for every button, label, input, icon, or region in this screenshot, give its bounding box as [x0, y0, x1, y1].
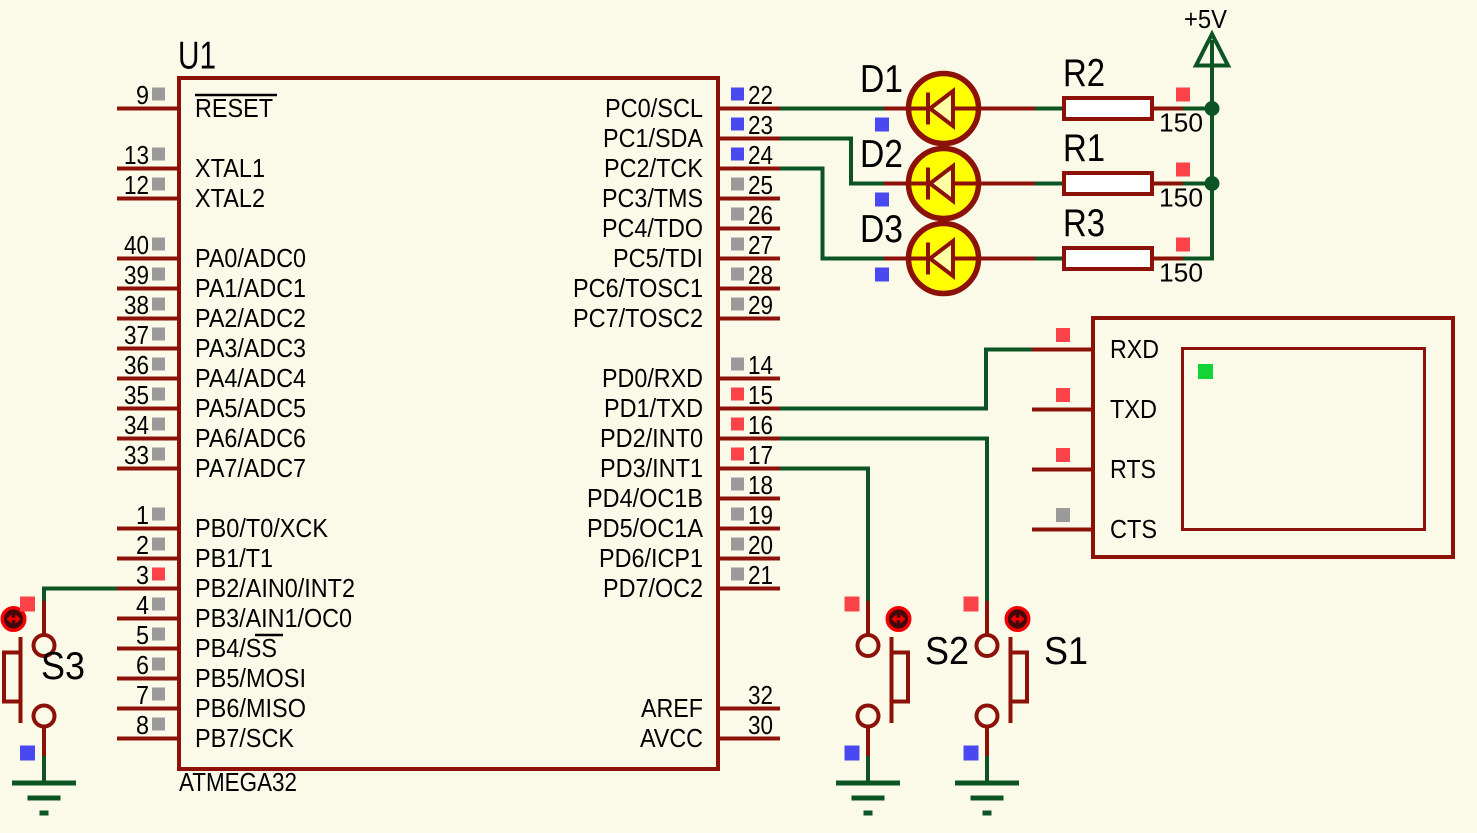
- svg-text:PB0/T0/XCK: PB0/T0/XCK: [195, 513, 329, 543]
- svg-text:20: 20: [748, 530, 773, 560]
- U1 right pin 21 PD7/OC2: stub, number, state square, name: [718, 587, 780, 591]
- svg-text:PD6/ICP1: PD6/ICP1: [599, 543, 703, 573]
- svg-text:150: 150: [1159, 258, 1203, 288]
- U1 right pin 30 AVCC: stub, number, state square, name: [718, 737, 780, 741]
- U1 left pin 1 PB0/T0/XCK: stub, number, state square, name: [117, 527, 179, 531]
- svg-text:30: 30: [748, 710, 773, 740]
- svg-text:23: 23: [748, 110, 773, 140]
- resistor R3: leads, body: [1033, 257, 1062, 261]
- button S2 bottom terminal circle: [858, 706, 879, 727]
- svg-text:24: 24: [748, 140, 773, 170]
- svg-text:150: 150: [1159, 108, 1203, 138]
- U1 left pin 6 PB5/MOSI: stub, number, state square, name: [117, 677, 179, 681]
- terminal pin RTS: stub, state square, name: [1032, 468, 1093, 472]
- svg-text:PC5/TDI: PC5/TDI: [613, 243, 703, 273]
- U1 right pin 19 PD5/OC1A: stub, number, state square, name: [718, 527, 780, 531]
- svg-text:RTS: RTS: [1110, 454, 1156, 484]
- svg-text:2: 2: [136, 530, 149, 560]
- wire pin16 PD2/INT0 down to button S1: [780, 439, 987, 604]
- button S3 bottom lead: [42, 726, 46, 759]
- svg-text:PD7/OC2: PD7/OC2: [603, 573, 703, 603]
- svg-text:PB7/SCK: PB7/SCK: [195, 723, 295, 753]
- svg-text:RESET: RESET: [195, 93, 273, 123]
- svg-text:37: 37: [124, 320, 149, 350]
- svg-text:R1: R1: [1063, 127, 1105, 170]
- wire pin3 PB2 to button S3: [44, 589, 117, 604]
- terminal pin CTS: stub, state square, name: [1032, 528, 1093, 532]
- svg-text:PC3/TMS: PC3/TMS: [602, 183, 703, 213]
- button S2 bottom state square (blue): [845, 746, 860, 761]
- svg-text:15: 15: [748, 380, 773, 410]
- svg-text:PA2/ADC2: PA2/ADC2: [195, 303, 306, 333]
- svg-text:1: 1: [136, 500, 149, 530]
- svg-text:PC7/TOSC2: PC7/TOSC2: [573, 303, 703, 333]
- svg-text:PB1/T1: PB1/T1: [195, 543, 273, 573]
- svg-text:21: 21: [748, 560, 773, 590]
- svg-text:PD0/RXD: PD0/RXD: [602, 363, 703, 393]
- svg-text:36: 36: [124, 350, 149, 380]
- IC U1 ATMEGA32 body: [179, 78, 718, 769]
- svg-text:5: 5: [136, 620, 149, 650]
- +5V power rail vertical wire: [1210, 40, 1214, 259]
- svg-text:PC4/TDO: PC4/TDO: [602, 213, 703, 243]
- svg-text:PA7/ADC7: PA7/ADC7: [195, 453, 306, 483]
- ground lead below S1: [985, 756, 989, 783]
- svg-text:PD1/TXD: PD1/TXD: [604, 393, 703, 423]
- svg-text:32: 32: [748, 680, 773, 710]
- button S1 interactive actuator (red circle with arrow): [1006, 608, 1029, 631]
- svg-text:D1: D1: [860, 58, 903, 101]
- svg-text:13: 13: [124, 140, 149, 170]
- svg-text:6: 6: [136, 650, 149, 680]
- wire pin23 to D2 (jog): [780, 139, 886, 184]
- svg-text:R3: R3: [1063, 202, 1105, 245]
- svg-text:PB6/MISO: PB6/MISO: [195, 693, 306, 723]
- button S3 bottom state square (blue): [20, 746, 35, 761]
- svg-text:CTS: CTS: [1110, 514, 1157, 544]
- button S3 interactive actuator (red circle with arrow): [2, 608, 25, 631]
- svg-text:28: 28: [748, 260, 773, 290]
- svg-text:AREF: AREF: [641, 693, 703, 723]
- ground symbol below S2: [836, 781, 900, 786]
- U1 left pin 40 PA0/ADC0: stub, number, state square, name: [117, 257, 179, 261]
- U1 left pin 7 PB6/MISO: stub, number, state square, name: [117, 707, 179, 711]
- svg-text:38: 38: [124, 290, 149, 320]
- button S1 bottom lead: [985, 726, 989, 759]
- svg-text:8: 8: [136, 710, 149, 740]
- U1 left pin 36 PA4/ADC4: stub, number, state square, name: [117, 377, 179, 381]
- U1 left pin 39 PA1/ADC1: stub, number, state square, name: [117, 287, 179, 291]
- U1 right pin 20 PD6/ICP1: stub, number, state square, name: [718, 557, 780, 561]
- wire pin22 to D1: [780, 107, 886, 111]
- svg-text:AVCC: AVCC: [640, 723, 703, 753]
- svg-text:+5V: +5V: [1184, 4, 1228, 34]
- svg-text:18: 18: [748, 470, 773, 500]
- U1 left pin 38 PA2/ADC2: stub, number, state square, name: [117, 317, 179, 321]
- svg-text:39: 39: [124, 260, 149, 290]
- U1 left pin 5 PB4/SS: stub, number, state square, name: [117, 647, 179, 651]
- button S3 top terminal circle: [34, 635, 55, 656]
- svg-text:XTAL2: XTAL2: [195, 183, 265, 213]
- U1 right pin 24 PC2/TCK: stub, number, state square, name: [718, 167, 780, 171]
- svg-text:25: 25: [748, 170, 773, 200]
- LED D1 input state square (blue): [875, 118, 889, 132]
- U1 left pin 3 PB2/AIN0/INT2: stub, number, state square, name: [117, 587, 179, 591]
- button S2 top state square (red): [845, 597, 860, 612]
- svg-text:34: 34: [124, 410, 149, 440]
- button S1 top lead: [985, 601, 989, 634]
- U1 left pin 8 PB7/SCK: stub, number, state square, name: [117, 737, 179, 741]
- U1 right pin 15 PD1/TXD: stub, number, state square, name: [718, 407, 780, 411]
- button S1 actuator plate: [1009, 637, 1013, 723]
- terminal cursor square (green): [1198, 364, 1213, 379]
- svg-text:19: 19: [748, 500, 773, 530]
- LED D3 input state square (blue): [875, 268, 889, 282]
- svg-text:R2: R2: [1063, 52, 1105, 95]
- ground symbol below S1: [955, 781, 1019, 786]
- LED D3: leads, circle, diode symbol: [884, 257, 908, 261]
- U1 right pin 16 PD2/INT0: stub, number, state square, name: [718, 437, 780, 441]
- U1 right pin 26 PC4/TDO: stub, number, state square, name: [718, 227, 780, 231]
- U1 left pin 13 XTAL1: stub, number, state square, name: [117, 167, 179, 171]
- U1 right pin 25 PC3/TMS: stub, number, state square, name: [718, 197, 780, 201]
- resistor R2 right pin state square (red): [1176, 88, 1190, 102]
- U1 right pin 27 PC5/TDI: stub, number, state square, name: [718, 257, 780, 261]
- LED D1: leads, circle, diode symbol: [884, 107, 908, 111]
- U1 left pin 37 PA3/ADC3: stub, number, state square, name: [117, 347, 179, 351]
- svg-text:22: 22: [748, 80, 773, 110]
- svg-text:PA4/ADC4: PA4/ADC4: [195, 363, 306, 393]
- button S2 bottom lead: [866, 726, 870, 759]
- U1 right pin 32 AREF: stub, number, state square, name: [718, 707, 780, 711]
- U1 right pin 18 PD4/OC1B: stub, number, state square, name: [718, 497, 780, 501]
- svg-text:40: 40: [124, 230, 149, 260]
- button S1 top state square (red): [964, 597, 979, 612]
- svg-text:14: 14: [748, 350, 773, 380]
- svg-text:27: 27: [748, 230, 773, 260]
- svg-text:9: 9: [136, 80, 149, 110]
- wire pin17 PD3/INT1 down to button S2: [780, 469, 868, 604]
- U1 left pin 4 PB3/AIN1/OC0: stub, number, state square, name: [117, 617, 179, 621]
- U1 right pin 22 PC0/SCL: stub, number, state square, name: [718, 107, 780, 111]
- svg-text:PD5/OC1A: PD5/OC1A: [587, 513, 704, 543]
- svg-text:3: 3: [136, 560, 149, 590]
- svg-text:TXD: TXD: [1110, 394, 1157, 424]
- button S1 bottom state square (blue): [964, 746, 979, 761]
- U1 left pin 33 PA7/ADC7: stub, number, state square, name: [117, 467, 179, 471]
- terminal pin TXD: stub, state square, name: [1032, 408, 1093, 412]
- svg-text:PC1/SDA: PC1/SDA: [603, 123, 704, 153]
- svg-text:ATMEGA32: ATMEGA32: [179, 767, 297, 797]
- U1 right pin 29 PC7/TOSC2: stub, number, state square, name: [718, 317, 780, 321]
- svg-text:150: 150: [1159, 183, 1203, 213]
- LED D2 input state square (blue): [875, 193, 889, 207]
- button S2 interactive actuator (red circle with arrow): [887, 608, 910, 631]
- U1 right pin 14 PD0/RXD: stub, number, state square, name: [718, 377, 780, 381]
- U1 left pin 12 XTAL2: stub, number, state square, name: [117, 197, 179, 201]
- button S3 top state square (red): [20, 597, 35, 612]
- svg-text:PB4/SS: PB4/SS: [195, 633, 277, 663]
- svg-text:D2: D2: [860, 133, 903, 176]
- U1 left pin 2 PB1/T1: stub, number, state square, name: [117, 557, 179, 561]
- U1 left pin 34 PA6/ADC6: stub, number, state square, name: [117, 437, 179, 441]
- svg-text:D3: D3: [860, 208, 903, 251]
- svg-text:S2: S2: [925, 630, 969, 673]
- resistor R3 right pin state square (red): [1176, 238, 1190, 252]
- svg-text:PA5/ADC5: PA5/ADC5: [195, 393, 306, 423]
- svg-text:PA1/ADC1: PA1/ADC1: [195, 273, 306, 303]
- LED D2: leads, circle, diode symbol: [884, 182, 908, 186]
- svg-text:PB5/MOSI: PB5/MOSI: [195, 663, 306, 693]
- button S3 top lead: [42, 601, 46, 634]
- svg-text:PA3/ADC3: PA3/ADC3: [195, 333, 306, 363]
- U1 left pin 9 RESET: stub, number, state square, name: [117, 107, 179, 111]
- wire pin15 PD1/TXD to terminal RXD (jog up): [780, 350, 1032, 409]
- svg-text:33: 33: [124, 440, 149, 470]
- svg-text:PD3/INT1: PD3/INT1: [600, 453, 703, 483]
- svg-text:PA0/ADC0: PA0/ADC0: [195, 243, 306, 273]
- svg-text:PC6/TOSC1: PC6/TOSC1: [573, 273, 703, 303]
- button S3 bottom terminal circle: [34, 706, 55, 727]
- svg-text:XTAL1: XTAL1: [195, 153, 265, 183]
- U1 right pin 23 PC1/SDA: stub, number, state square, name: [718, 137, 780, 141]
- svg-text:RXD: RXD: [1110, 334, 1159, 364]
- svg-text:PD4/OC1B: PD4/OC1B: [587, 483, 703, 513]
- ground lead below S2: [866, 756, 870, 783]
- svg-text:4: 4: [136, 590, 149, 620]
- ground lead below S3: [42, 756, 46, 783]
- wire pin24 to D3 (jog): [780, 169, 886, 259]
- terminal pin RXD: stub, state square, name: [1032, 348, 1093, 352]
- svg-text:16: 16: [748, 410, 773, 440]
- U1 right pin 28 PC6/TOSC1: stub, number, state square, name: [718, 287, 780, 291]
- resistor R2: leads, body: [1033, 107, 1062, 111]
- button S1 bottom terminal circle: [977, 706, 998, 727]
- svg-text:7: 7: [136, 680, 149, 710]
- svg-text:S1: S1: [1044, 630, 1088, 673]
- virtual terminal screen box: [1183, 349, 1425, 530]
- svg-text:PA6/ADC6: PA6/ADC6: [195, 423, 306, 453]
- svg-text:12: 12: [124, 170, 149, 200]
- svg-text:35: 35: [124, 380, 149, 410]
- svg-text:26: 26: [748, 200, 773, 230]
- resistor R1: leads, body: [1033, 182, 1062, 186]
- U1 right pin 17 PD3/INT1: stub, number, state square, name: [718, 467, 780, 471]
- ground symbol below S3: [12, 781, 76, 786]
- svg-text:PC2/TCK: PC2/TCK: [604, 153, 704, 183]
- svg-text:PD2/INT0: PD2/INT0: [600, 423, 703, 453]
- svg-text:S3: S3: [41, 645, 85, 688]
- button S1 top terminal circle: [977, 635, 998, 656]
- svg-text:29: 29: [748, 290, 773, 320]
- button S3 actuator plate: [19, 637, 23, 723]
- junction dot rail/R2: [1205, 101, 1220, 116]
- svg-text:PB2/AIN0/INT2: PB2/AIN0/INT2: [195, 573, 355, 603]
- svg-text:PB3/AIN1/OC0: PB3/AIN1/OC0: [195, 603, 352, 633]
- U1 left pin 35 PA5/ADC5: stub, number, state square, name: [117, 407, 179, 411]
- virtual terminal outer box: [1093, 318, 1453, 557]
- svg-text:PC0/SCL: PC0/SCL: [605, 93, 703, 123]
- button S2 actuator plate: [890, 637, 894, 723]
- resistor R1 right pin state square (red): [1176, 163, 1190, 177]
- svg-text:U1: U1: [178, 35, 216, 78]
- button S2 top terminal circle: [858, 635, 879, 656]
- junction dot rail/R1: [1205, 176, 1220, 191]
- svg-text:17: 17: [748, 440, 773, 470]
- +5V power symbol arrow: [1196, 34, 1228, 66]
- button S2 top lead: [866, 601, 870, 634]
